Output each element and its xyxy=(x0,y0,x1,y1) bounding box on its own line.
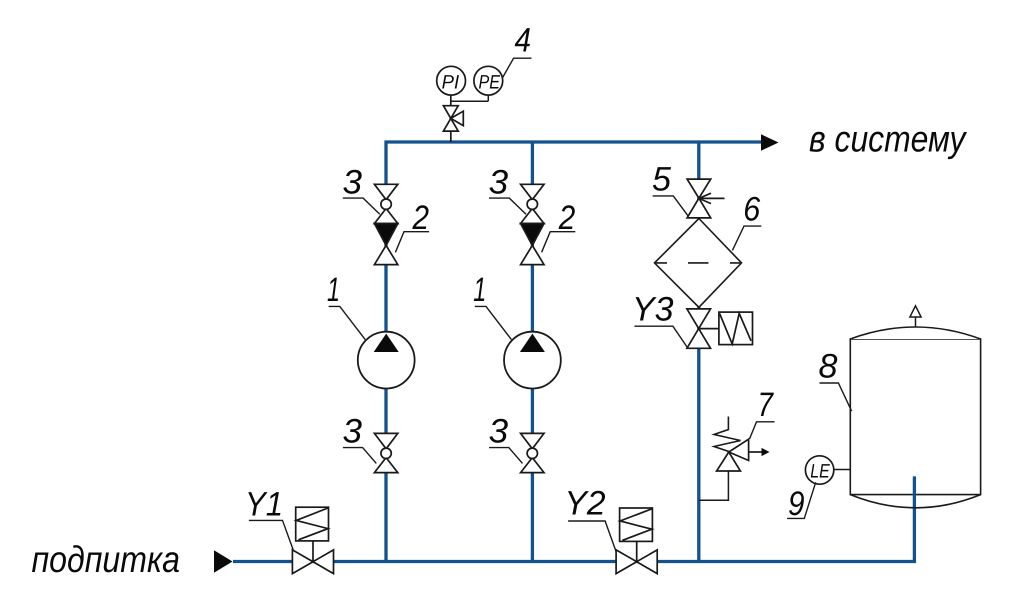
svg-text:LE: LE xyxy=(810,461,830,483)
svg-text:1: 1 xyxy=(473,271,486,309)
svg-text:9: 9 xyxy=(788,485,805,523)
label Y1 leader xyxy=(249,520,293,550)
svg-text:4: 4 xyxy=(515,22,532,60)
svg-text:1: 1 xyxy=(327,271,340,309)
svg-text:Y1: Y1 xyxy=(245,486,283,524)
wire: bottom make-up pipe and tank riser xyxy=(233,476,914,561)
valve 3 (branch 1 bottom) xyxy=(374,433,397,472)
label Y2 leader xyxy=(568,521,616,551)
label 6 leader xyxy=(732,226,761,250)
solenoid valve Y1 xyxy=(292,507,333,573)
arrow: flow to system xyxy=(761,134,779,150)
svg-text:6: 6 xyxy=(743,190,760,228)
tank 8 body xyxy=(850,327,980,495)
label 1 (branch 1) leader xyxy=(329,306,366,339)
label 3 (branch 1 bottom) leader xyxy=(343,448,376,464)
label 2 (branch 2) leader xyxy=(542,232,576,253)
safety valve 7 outlet arrow xyxy=(762,448,770,456)
gauge PE xyxy=(474,66,503,95)
svg-text:8: 8 xyxy=(819,347,838,385)
gauge connector lines xyxy=(451,96,489,102)
gauge PI xyxy=(437,66,466,95)
check valve 2 (branch 1) xyxy=(374,224,397,265)
pump 1 (branch 1) xyxy=(358,332,415,389)
arrow: make-up inlet xyxy=(214,550,233,573)
valve 3 (branch 2 bottom) xyxy=(521,433,544,472)
label 3 (branch 1 top) leader xyxy=(343,198,380,214)
label 1 (branch 2) leader xyxy=(475,306,512,339)
svg-text:в систему: в систему xyxy=(809,118,968,159)
solenoid valve Y2 xyxy=(616,508,657,574)
label 7 leader xyxy=(750,422,775,439)
valve 3 (branch 1 top) xyxy=(374,184,397,223)
level sensor LE xyxy=(805,456,850,484)
svg-text:7: 7 xyxy=(758,386,774,424)
label 4 leader xyxy=(502,58,531,78)
label 3 (branch 2 bottom) leader xyxy=(489,448,522,464)
label Y3 leader xyxy=(634,326,687,348)
label 9 leader xyxy=(787,482,816,518)
svg-text:3: 3 xyxy=(489,412,509,450)
svg-text:PI: PI xyxy=(442,72,460,94)
label 8 leader xyxy=(820,383,852,411)
wire: branch 3 riser xyxy=(697,142,700,562)
check valve 2 (branch 2) xyxy=(521,224,544,265)
svg-text:Y2: Y2 xyxy=(565,484,606,522)
valve 3 (branch 2 top) xyxy=(521,184,544,223)
wire: top header pipe and branch 1 riser xyxy=(386,142,762,562)
svg-text:2: 2 xyxy=(558,199,575,237)
tank bottom arc xyxy=(850,495,980,508)
valve 5 (regulating) xyxy=(687,179,724,218)
svg-text:5: 5 xyxy=(652,160,671,198)
svg-text:3: 3 xyxy=(343,163,363,201)
safety valve 7 xyxy=(714,417,762,472)
valve (three-way) under gauges xyxy=(443,96,463,143)
svg-text:3: 3 xyxy=(489,163,509,201)
wire: branch 2 riser xyxy=(531,142,534,562)
label 2 (branch 1) leader xyxy=(395,232,429,253)
svg-text:PE: PE xyxy=(479,72,501,94)
svg-text:2: 2 xyxy=(412,199,429,237)
tank vent xyxy=(910,306,921,327)
svg-text:Y3: Y3 xyxy=(632,291,674,329)
solenoid valve Y3 xyxy=(687,309,753,348)
label 3 (branch 2 top) leader xyxy=(489,198,526,214)
pump 1 (branch 2) xyxy=(504,332,561,389)
svg-text:3: 3 xyxy=(343,412,363,450)
safety valve 7 connection xyxy=(699,471,729,500)
filter 6 (diamond) xyxy=(655,219,742,308)
svg-text:подпитка: подпитка xyxy=(32,539,181,580)
label 5 leader xyxy=(653,196,689,216)
